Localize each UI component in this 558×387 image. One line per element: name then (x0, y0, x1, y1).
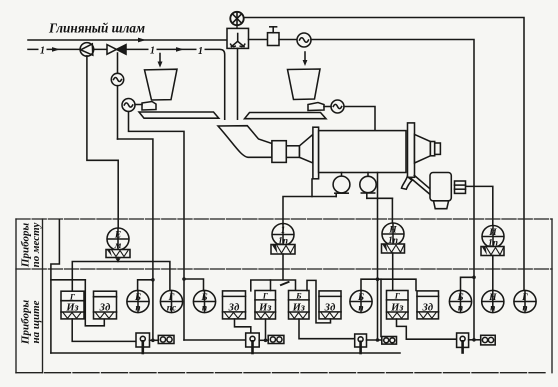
switch S4 (group D) (355, 334, 367, 353)
lamp box LP1 (158, 335, 174, 343)
band frame right (551, 219, 553, 373)
svg-text:Зд: Зд (421, 303, 433, 314)
junction dot on wire 474 (472, 276, 476, 280)
svg-text:Из: Из (390, 303, 403, 314)
svg-text:1: 1 (40, 46, 45, 57)
svg-text:Глиняный шлам: Глиняный шлам (48, 22, 145, 37)
arrowhead on gas line (138, 38, 146, 43)
svg-text:пс: пс (167, 303, 177, 313)
branch dot D to Zd-D top (378, 279, 417, 290)
svg-text:Н: Н (488, 293, 497, 303)
wire switch3-lamp3 (469, 339, 481, 341)
indicator circle C-F (514, 290, 536, 312)
wire switch4-lamp4 (367, 339, 382, 341)
svg-text:Г: Г (521, 293, 528, 303)
bracket B: gauge wire to Iz-B and Zd-B (235, 319, 251, 335)
svg-text:Б: Б (200, 293, 207, 303)
outlet neck (430, 142, 434, 156)
wire Iz-D bottom jog to switch3 (397, 319, 457, 339)
wire Iz-C bottom to bus (299, 319, 355, 339)
gauge G1 under drum (333, 173, 350, 197)
actuator A1 (106, 250, 130, 263)
junction dot at switch1-lamp1 (151, 339, 155, 343)
band frame left (15, 219, 17, 373)
discharge hook chute (402, 177, 413, 190)
bus wire bottom (51, 352, 400, 354)
junction dot at switch3-lamp3 (472, 338, 476, 342)
svg-text:на щите: на щите (30, 300, 42, 343)
band frame top (16, 218, 552, 220)
apparatus box A (diverter) (227, 28, 249, 48)
transducer circle (sine) on gas line (297, 33, 311, 47)
pipe label 1 (left) (39, 44, 47, 57)
svg-text:Г: Г (262, 291, 269, 301)
branch dot D to C-C (361, 279, 378, 291)
wire: T-branch to x=152.9 (118, 139, 153, 340)
branch to circle E (461, 277, 475, 290)
controller box Iz-D (387, 291, 409, 320)
chute leg from box A (237, 48, 239, 119)
fan/handwheel symbol on line A (230, 12, 243, 29)
band frame separator (16, 268, 552, 270)
local instrument L1 circle (107, 228, 129, 250)
inlet cone (300, 134, 313, 163)
svg-text:Г: Г (394, 291, 401, 301)
pump P1 (80, 43, 94, 57)
loop under L2 actuator (251, 280, 296, 291)
branch to C3 (184, 279, 204, 291)
local instrument L4 circle (482, 226, 504, 248)
svg-text:Б: Б (456, 293, 463, 303)
junction dot at switch2-lamp2 (264, 339, 268, 343)
gas line y=40 with arrow (28, 39, 227, 41)
wire switch2-lamp2 (259, 339, 268, 341)
switch S3 (457, 333, 469, 353)
setpoint box Zd-D (417, 291, 439, 319)
inlet neck (286, 146, 299, 158)
junction dot at switch4-lamp4 (376, 338, 380, 342)
feed duct (curved chute into mill) (218, 126, 272, 158)
hopper 1 (145, 69, 178, 100)
small valve box with stem (268, 27, 280, 46)
wire: pump signal down (87, 56, 118, 228)
svg-text:Г: Г (168, 293, 175, 303)
indicator circle C3 (193, 290, 215, 312)
bracket C: Iz-C top to Zd-C bottom (307, 280, 331, 323)
svg-text:1: 1 (198, 46, 203, 57)
wire from box A to right (249, 39, 268, 41)
wire from transducer 3 to drum top (344, 107, 375, 131)
controller box Iz-C (289, 291, 310, 320)
transducer circle (sine) at feeder 1 (122, 99, 142, 112)
wire from mill inlet to L2 (311, 179, 313, 197)
svg-text:Из: Из (258, 303, 271, 314)
wire valve box to transducer (279, 39, 297, 41)
actuator A3 (382, 244, 405, 291)
wire: top signal line y=17.5 to right side (244, 18, 525, 291)
svg-text:Г: Г (69, 292, 76, 302)
wire switch1-lamp1 (150, 339, 159, 341)
ring around group A (51, 220, 60, 354)
setpoint box Zd-A (94, 291, 117, 319)
svg-text:1: 1 (150, 46, 155, 57)
slurry pipe y=49.4 (28, 49, 225, 119)
junction dot A1 (151, 278, 155, 282)
loop under L1 (72, 262, 170, 292)
bucket foot (434, 201, 449, 209)
outlet cone (415, 134, 431, 163)
lamp box LP2 (268, 335, 284, 343)
local instrument L2 circle (272, 224, 294, 246)
svg-text:п: п (490, 303, 495, 313)
svg-text:п: п (458, 303, 463, 313)
indicator circle C-C (350, 290, 372, 312)
valve V1 on pipe (107, 45, 126, 55)
label: Приборы по месту (20, 223, 43, 269)
discharge bucket (430, 173, 451, 201)
setpoint box Zd-B (223, 291, 246, 319)
svg-text:Из: Из (292, 303, 305, 314)
pipe arrowhead 1 (52, 47, 60, 52)
controller box Iz-A (61, 291, 84, 319)
feed arrow into hopper 2 (303, 52, 308, 66)
branch to C1 (138, 280, 153, 291)
band frame bottom (16, 372, 545, 374)
svg-text:Е: Е (114, 231, 121, 241)
switch S2 (246, 333, 260, 353)
indicator circle C1 (127, 290, 149, 312)
svg-text:Б: Б (295, 291, 302, 301)
tick mark (281, 282, 289, 285)
junction dot D (376, 277, 380, 281)
belt conveyor left (139, 112, 219, 118)
belt conveyor right (245, 113, 327, 119)
wire to local instrument 3 (391, 198, 393, 223)
local instrument L3 circle (382, 223, 404, 245)
indicator circle C-G (482, 290, 504, 312)
controller box Iz-B (255, 291, 276, 320)
level sensor striped box (455, 181, 466, 193)
band label column divider (42, 219, 44, 373)
svg-text:1: 1 (281, 226, 286, 236)
indicator circle C2 (160, 290, 182, 312)
svg-text:Б: Б (357, 293, 364, 303)
feed arrow into hopper 1 (158, 54, 163, 68)
wire x184 bottom jog to switch2 (184, 339, 246, 341)
pipe arrowhead 2 (176, 47, 184, 52)
feeder nozzle 2 under hopper 2 (308, 103, 324, 111)
indicator circle C-E (449, 290, 471, 312)
wire sensor to local instrument 4 (466, 186, 493, 226)
svg-text:по месту: по месту (30, 223, 42, 268)
transducer circle (sine) under V1 (111, 73, 123, 85)
svg-text:И: И (488, 228, 497, 238)
wire: feeder transducer 2 branch (129, 112, 185, 341)
transducer circle (sine) at feeder 2 (324, 100, 344, 113)
hopper 2 (288, 69, 321, 100)
svg-text:п: п (135, 303, 140, 313)
wire: valve V1 stem to transducer (117, 53, 119, 74)
pipe label 1 (mid) (149, 44, 157, 57)
actuator A4 (481, 247, 504, 291)
svg-text:Из: Из (65, 303, 78, 314)
mill drum (319, 131, 406, 173)
extra drop wire (380, 279, 382, 336)
wire from drum bottom down to group D junction (377, 173, 379, 341)
gauge G2 under drum (360, 173, 376, 199)
svg-text:Зд: Зд (228, 303, 240, 314)
lamp box LP3 (481, 335, 496, 345)
svg-text:Зд: Зд (324, 303, 336, 314)
right support flange (408, 123, 415, 177)
junction dot A2 (182, 277, 186, 281)
feeder nozzle 1 under hopper 1 (142, 102, 156, 111)
left flange (313, 127, 319, 179)
wire gauge2 to L3 feed line (367, 197, 393, 199)
label: Приборы на щите (20, 300, 43, 346)
wire Iz-B bottom to lamp junction (265, 319, 267, 340)
wire transducer down to local instrument 1 (117, 86, 119, 139)
svg-text:Н: Н (388, 226, 397, 236)
svg-text:п: п (358, 303, 363, 313)
wire transducer to right drop x=474 (311, 40, 474, 340)
svg-text:Б: Б (134, 293, 141, 303)
actuator A2 (271, 245, 295, 280)
svg-text:Зд: Зд (99, 303, 111, 314)
lamp box LP4 (group D) (382, 337, 397, 345)
mill inlet trunnion (272, 141, 286, 163)
switch S1 (136, 333, 150, 353)
svg-text:п: п (202, 303, 207, 313)
setpoint box Zd-C (319, 291, 341, 319)
pipe label 1 (right) (197, 45, 205, 58)
outlet cap (435, 143, 441, 154)
wire Iz-A bottom to bus (72, 319, 136, 342)
svg-text:п: п (522, 303, 527, 313)
